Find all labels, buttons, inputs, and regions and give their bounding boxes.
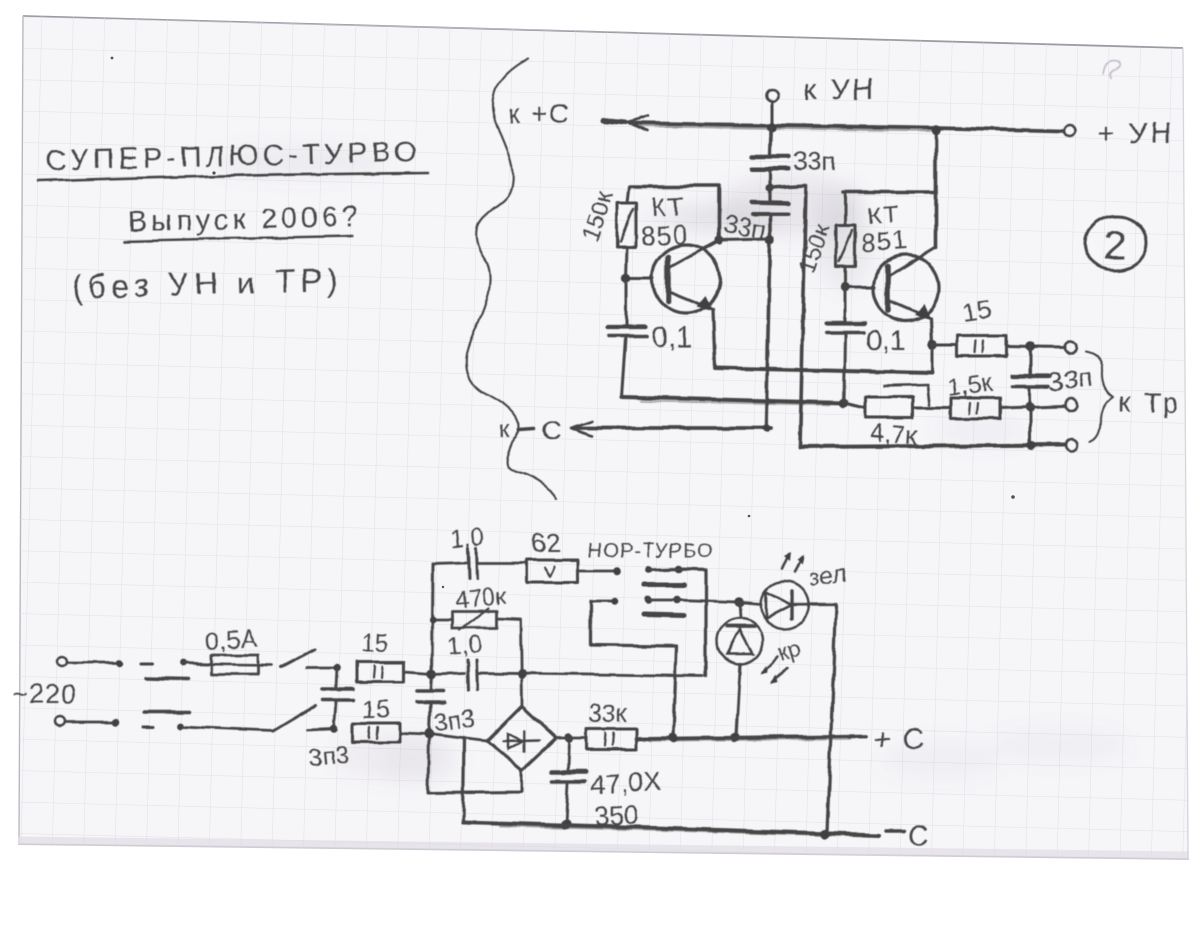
svg-text:~220: ~220 [12, 679, 77, 709]
svg-text:15: 15 [361, 629, 389, 657]
svg-text:С: С [908, 821, 929, 853]
svg-text:НОР-ТУРБО: НОР-ТУРБО [588, 540, 714, 562]
svg-text:850: 850 [640, 220, 690, 252]
svg-text:470к: 470к [454, 583, 507, 614]
svg-text:33к: 33к [588, 700, 628, 728]
svg-text:к +С: к +С [508, 99, 571, 129]
svg-text:(без УН и ТР): (без УН и ТР) [71, 262, 343, 305]
svg-text:2: 2 [1104, 224, 1126, 268]
svg-text:33п: 33п [793, 146, 836, 176]
svg-text:Выпуск 2006?: Выпуск 2006? [127, 201, 362, 238]
svg-text:0,5А: 0,5А [204, 624, 258, 656]
svg-text:+ С: + С [874, 724, 926, 756]
svg-text:1,0: 1,0 [449, 524, 485, 554]
svg-text:зел: зел [807, 560, 848, 592]
svg-text:47,0Х: 47,0Х [590, 766, 662, 800]
svg-text:62: 62 [531, 528, 561, 558]
svg-text:15: 15 [961, 294, 994, 328]
svg-text:С: С [541, 415, 561, 446]
svg-text:КТ: КТ [650, 191, 686, 222]
svg-text:15: 15 [362, 696, 390, 724]
svg-text:0,1: 0,1 [652, 322, 692, 354]
svg-text:851: 851 [860, 225, 908, 258]
svg-text:к: к [499, 416, 511, 444]
svg-text:к Тр: к Тр [1118, 387, 1181, 418]
svg-text:+ УН: + УН [1098, 118, 1174, 150]
svg-text:3п3: 3п3 [433, 705, 477, 737]
svg-text:33п: 33п [1047, 362, 1095, 398]
svg-text:1,0: 1,0 [447, 631, 483, 661]
svg-text:3п3: 3п3 [307, 740, 351, 771]
svg-text:0,1: 0,1 [866, 325, 906, 357]
svg-text:к УН: к УН [804, 74, 876, 106]
